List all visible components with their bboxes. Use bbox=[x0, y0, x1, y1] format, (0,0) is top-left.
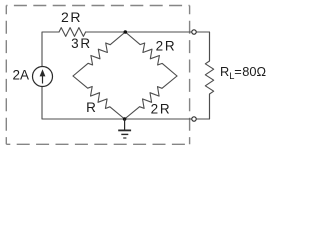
dashed network boundary box bbox=[6, 6, 189, 145]
dashed box bottom edge bbox=[6, 143, 189, 145]
svg-text:R: R bbox=[220, 64, 229, 79]
wire bottom bbox=[42, 87, 192, 120]
node dot top bbox=[124, 30, 128, 34]
resistor R lower left bbox=[73, 76, 125, 119]
svg-text:2R: 2R bbox=[151, 102, 172, 117]
wire terminal a to RL bbox=[196, 32, 209, 61]
dashed box right edge bbox=[189, 6, 191, 145]
node dot ground bbox=[123, 117, 127, 121]
dashed box left edge bbox=[5, 6, 7, 145]
current source I1 2A bbox=[33, 67, 53, 87]
dashed box top edge bbox=[6, 5, 189, 7]
wire top to terminal a bbox=[86, 31, 192, 33]
svg-text:Ω: Ω bbox=[257, 64, 267, 79]
terminal b bbox=[192, 117, 196, 121]
svg-text:3R: 3R bbox=[71, 36, 92, 51]
resistor 3R bbox=[73, 32, 125, 76]
resistor RL bbox=[205, 32, 213, 119]
svg-text:=: = bbox=[234, 64, 241, 79]
svg-text:2R: 2R bbox=[156, 39, 177, 54]
resistor 2R lower right bbox=[125, 76, 177, 119]
wire top left bbox=[42, 32, 59, 67]
resistor 2R upper right bbox=[125, 32, 177, 76]
ground bbox=[118, 119, 131, 138]
terminal a bbox=[192, 30, 196, 34]
svg-text:80: 80 bbox=[242, 64, 256, 79]
svg-text:2A: 2A bbox=[13, 68, 30, 83]
current source arrow head bbox=[40, 69, 46, 76]
wire RL to terminal b bbox=[196, 94, 209, 119]
svg-text:R: R bbox=[86, 100, 96, 115]
svg-text:2R: 2R bbox=[61, 9, 82, 25]
resistor 2R top bbox=[59, 28, 86, 37]
